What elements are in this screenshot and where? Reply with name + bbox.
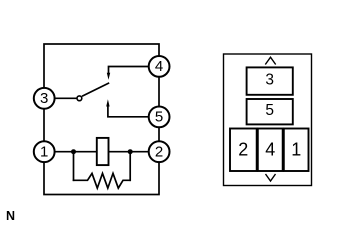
svg-text:1: 1 (40, 143, 48, 160)
pad 1 (284, 129, 309, 172)
pin 3 terminal (34, 88, 55, 109)
resistor R1 (zigzag) (73, 173, 131, 188)
pin 2 terminal (149, 141, 170, 162)
svg-text:5: 5 (265, 102, 274, 119)
pinout outline box (224, 54, 312, 186)
junction dot left (71, 149, 76, 154)
svg-text:4: 4 (155, 58, 163, 75)
svg-text:2: 2 (238, 139, 248, 159)
pad 4 (258, 129, 283, 172)
junction dot right (128, 149, 133, 154)
relay coil (rectangle) (97, 138, 109, 165)
pin 4 terminal (149, 56, 170, 77)
bottom orientation chevron (266, 174, 276, 181)
wire pin1 to pin2 (coil rail) (55, 151, 149, 153)
svg-text:1: 1 (291, 139, 301, 159)
contact arrow (to pin 5, pointing up) (106, 99, 109, 106)
wire contact to pin 4 (109, 67, 149, 74)
svg-text:5: 5 (155, 109, 163, 126)
svg-text:N: N (6, 209, 15, 223)
pad 3 (247, 67, 293, 94)
pin 5 terminal (149, 107, 170, 128)
wire right branch down (129, 152, 131, 181)
wire left branch down (73, 152, 75, 181)
contact arrow (to pin 4, pointing down) (107, 73, 110, 80)
top orientation chevron (265, 57, 275, 64)
relay K1 outline box (44, 44, 159, 195)
svg-text:3: 3 (265, 72, 274, 89)
svg-text:3: 3 (40, 90, 48, 107)
wire contact to pin 5 (108, 106, 149, 117)
switch pivot contact (77, 96, 82, 101)
pad 5 (247, 99, 293, 124)
switch blade (movable contact) (82, 83, 109, 96)
pin 1 terminal (34, 141, 55, 162)
svg-text:4: 4 (265, 139, 275, 159)
wire pin3 to switch pivot (56, 97, 77, 99)
pad 2 (230, 129, 257, 172)
svg-text:2: 2 (155, 143, 163, 160)
